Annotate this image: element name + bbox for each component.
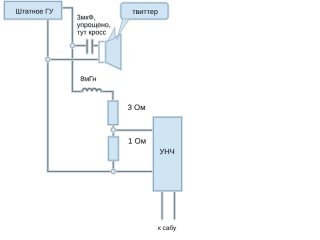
svg-text:Штатное ГУ: Штатное ГУ: [16, 9, 54, 16]
node A (junction of head unit feed and crossover): [70, 44, 74, 48]
wire amplifier output stub right, to subwoofer: [173, 191, 176, 219]
svg-text:3мкФ,: 3мкФ,: [77, 15, 96, 22]
capacitor C1 (3мкФ crossover) plates: [87, 40, 92, 53]
resistor R2 1 Ом body: [109, 137, 119, 160]
node C (junction between R1 and R2): [111, 128, 115, 132]
wire resistor R2 bottom to node D: [112, 160, 115, 169]
wire capacitor C1 to tweeter top terminal: [92, 44, 99, 47]
tweeter speaker symbol: cone: [106, 35, 121, 70]
svg-text:8мГн: 8мГн: [80, 76, 96, 83]
label "3мкФ, упрощено, тут кросс" (capacitor note): [77, 15, 111, 37]
svg-text:3 Ом: 3 Ом: [128, 103, 146, 112]
wire head unit bottom down to node B: [46, 20, 49, 58]
svg-text:твиттер: твиттер: [132, 7, 158, 16]
label "1 Ом" (R2 value): [128, 136, 146, 145]
wire resistor R1 bottom to node C: [112, 125, 115, 128]
svg-text:упрощено,: упрощено,: [77, 22, 111, 29]
label "к сабу" (to subwoofer): [158, 225, 177, 232]
wire node C down to resistor R2 top: [112, 132, 115, 137]
wire node B down the left rail and right along the bottom to node D: [48, 62, 111, 172]
wire node C right to amplifier input: [116, 129, 154, 132]
callout pointer sliver (left, from note toward tweeter): [108, 27, 115, 41]
callout "твиттер" balloon box: [121, 3, 168, 19]
wire node B right to tweeter bottom terminal (crosses vertical wire, no junction): [50, 58, 99, 61]
node D (junction on bottom rail): [111, 169, 115, 173]
wire amplifier output stub left, to subwoofer: [161, 191, 164, 219]
node B (junction on return rail): [46, 57, 50, 61]
svg-text:УНЧ: УНЧ: [160, 147, 175, 156]
tweeter speaker symbol: driver rectangle: [99, 42, 106, 62]
label "8мГн" (inductor value): [80, 76, 97, 83]
wire node A to capacitor C1: [75, 44, 88, 47]
amplifier box УНЧ: [154, 117, 182, 190]
svg-text:к сабу: к сабу: [158, 225, 177, 232]
inductor L1 8мГн coil humps: [82, 89, 101, 92]
wire from head unit right edge over to vertical drop, down to node A: [61, 8, 72, 44]
resistor R1 3 Ом body: [108, 101, 118, 124]
wire inductor L1 out to corner, down to resistor R1 top: [101, 92, 113, 102]
label "3 Ом" (R1 value): [128, 103, 146, 112]
head unit box "Штатное ГУ": [5, 2, 62, 19]
svg-text:тут кросс: тут кросс: [77, 29, 107, 36]
svg-text:1 Ом: 1 Ом: [128, 136, 146, 145]
wire node A down to inductor corner, right to inductor start: [72, 48, 82, 92]
wire node D right to amplifier input: [116, 170, 154, 173]
callout pointer from "твиттер" balloon down to tweeter: [117, 19, 130, 41]
